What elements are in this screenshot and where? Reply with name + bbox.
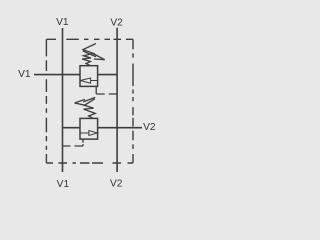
svg-text:V1: V1: [56, 17, 69, 28]
wire: RV2 outlet to V2 port: [97, 127, 142, 129]
wire: V1 line to valve RV2: [63, 127, 81, 129]
relief valve RV2 flow arrow (points right): [80, 131, 97, 136]
svg-text:V2: V2: [110, 18, 123, 29]
wire: V2 line vertical: [116, 28, 118, 172]
wire: V1 port horizontal to valve RV1: [34, 74, 81, 76]
svg-text:V1: V1: [57, 179, 70, 190]
valve block dashed boundary (right side): [132, 39, 134, 163]
relief valve RV1 adjustment arrow: [83, 51, 105, 60]
pilot line RV2 (dashed to V1): [63, 145, 84, 147]
valve block dashed boundary (left side): [45, 39, 47, 163]
relief valve RV1 spring: [82, 44, 96, 66]
relief valve RV2 adjustment arrow: [75, 97, 96, 105]
svg-text:V2: V2: [143, 122, 156, 133]
relief valve RV1 flow arrow (points left): [80, 78, 97, 83]
valve block dashed boundary (top side): [46, 38, 133, 40]
svg-text:V1: V1: [18, 69, 31, 80]
pilot line RV1 stub: [95, 87, 97, 94]
wire: RV1 outlet to V2 line: [97, 74, 117, 76]
relief valve RV1 body: [80, 66, 98, 87]
wire: V1 line vertical: [62, 28, 64, 172]
valve block dashed boundary (bottom side): [46, 162, 133, 164]
relief valve RV2 body: [80, 118, 98, 139]
svg-text:V2: V2: [110, 179, 123, 190]
pilot line RV1 (dashed to V2): [96, 93, 117, 95]
relief valve RV2 spring: [84, 99, 96, 119]
pilot line RV2 stub: [82, 139, 84, 146]
